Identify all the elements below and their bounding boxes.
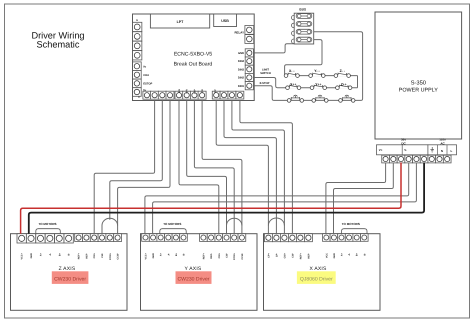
svg-text:Y AXIS: Y AXIS (185, 266, 202, 272)
svg-text:REF+: REF+ (78, 252, 81, 259)
svg-text:REF-: REF- (307, 253, 310, 259)
svg-text:GND: GND (30, 253, 33, 259)
svg-text:BUS: BUS (299, 8, 306, 12)
svg-text:X- -: X- - (289, 69, 294, 73)
svg-text:SWITCH: SWITCH (260, 72, 271, 75)
svg-text:CP: CP (214, 89, 217, 93)
svg-text:TO MOTORS: TO MOTORS (163, 222, 181, 226)
svg-text:Y- -: Y- - (314, 69, 319, 73)
svg-text:Break Out Board: Break Out Board (174, 62, 213, 68)
svg-text:ESTOP: ESTOP (143, 83, 152, 86)
svg-text:STP: STP (193, 89, 196, 94)
svg-text:V-: V- (404, 148, 407, 152)
svg-text:DIN2: DIN2 (238, 77, 245, 80)
svg-text:CW+: CW+ (93, 252, 96, 258)
svg-text:DIN3: DIN3 (238, 68, 245, 71)
svg-text:CP+: CP+ (267, 252, 270, 257)
svg-text:REF-: REF- (85, 253, 88, 259)
svg-text:CW+: CW+ (218, 252, 221, 258)
svg-text:E: E (136, 19, 138, 22)
svg-text:USB: USB (221, 19, 229, 23)
svg-text:Z- -: Z- - (340, 69, 345, 73)
svg-text:GND: GND (333, 253, 336, 259)
svg-text:LPT: LPT (177, 20, 185, 24)
svg-text:RELAY: RELAY (234, 31, 244, 35)
svg-text:GND: GND (238, 52, 244, 55)
svg-text:CW+: CW+ (283, 252, 286, 258)
svg-text:C: C (138, 96, 140, 99)
svg-text:CP-: CP- (275, 253, 278, 257)
svg-text:DIN1: DIN1 (238, 85, 245, 88)
svg-text:LIMIT: LIMIT (262, 69, 269, 72)
svg-text:VCC: VCC (325, 253, 328, 258)
svg-text:A-: A- (167, 253, 170, 256)
svg-text:CCW+: CCW+ (109, 252, 112, 260)
svg-text:Schematic: Schematic (37, 39, 80, 49)
svg-text:CCW-: CCW- (117, 253, 120, 260)
svg-text:EN: EN (178, 89, 181, 93)
svg-text:CW230 Driver: CW230 Driver (178, 277, 210, 283)
svg-text:B-: B- (363, 253, 366, 256)
svg-text:TO MOTORS: TO MOTORS (342, 222, 360, 226)
svg-text:CCW-: CCW- (241, 253, 244, 260)
svg-text:N: N (441, 149, 443, 153)
svg-text:A-: A- (49, 253, 52, 256)
svg-text:GND: GND (152, 253, 155, 259)
svg-text:CCW+: CCW+ (233, 252, 236, 260)
svg-text:B-: B- (68, 253, 71, 256)
svg-text:Y++: Y++ (315, 82, 321, 86)
svg-text:DIR: DIR (186, 89, 189, 93)
svg-text:CW-: CW- (291, 253, 294, 258)
svg-text:ECNC-5XBO-V5: ECNC-5XBO-V5 (174, 52, 212, 58)
svg-text:TO MOTORS: TO MOTORS (38, 222, 56, 226)
svg-text:0v: 0v (143, 65, 146, 68)
svg-text:CW-: CW- (101, 253, 104, 258)
svg-text:E.STOP: E.STOP (260, 82, 270, 85)
svg-text:DIN4: DIN4 (238, 60, 245, 63)
svg-text:QJ8060 Driver: QJ8060 Driver (300, 277, 333, 283)
svg-text:CW-: CW- (226, 253, 229, 258)
svg-text:CW230 Driver: CW230 Driver (54, 277, 86, 283)
svg-text:A-: A- (348, 253, 351, 256)
svg-text:S-350: S-350 (411, 80, 426, 87)
svg-text:Z AXIS: Z AXIS (59, 266, 76, 272)
svg-text:L: L (451, 149, 453, 153)
svg-text:V+: V+ (379, 148, 383, 152)
svg-text:CHA: CHA (143, 74, 149, 77)
svg-text:REF+: REF+ (299, 252, 302, 259)
svg-text:X++: X++ (290, 82, 296, 86)
svg-text:VCC+: VCC+ (145, 252, 148, 259)
svg-text:Z++: Z++ (341, 82, 347, 86)
svg-text:VCC+: VCC+ (21, 252, 24, 259)
svg-text:REF+: REF+ (202, 252, 205, 259)
svg-text:B-: B- (183, 253, 186, 256)
svg-text:X AXIS: X AXIS (309, 266, 327, 272)
svg-text:REF-: REF- (210, 253, 213, 259)
svg-text:POWER UPPLY: POWER UPPLY (399, 88, 439, 94)
